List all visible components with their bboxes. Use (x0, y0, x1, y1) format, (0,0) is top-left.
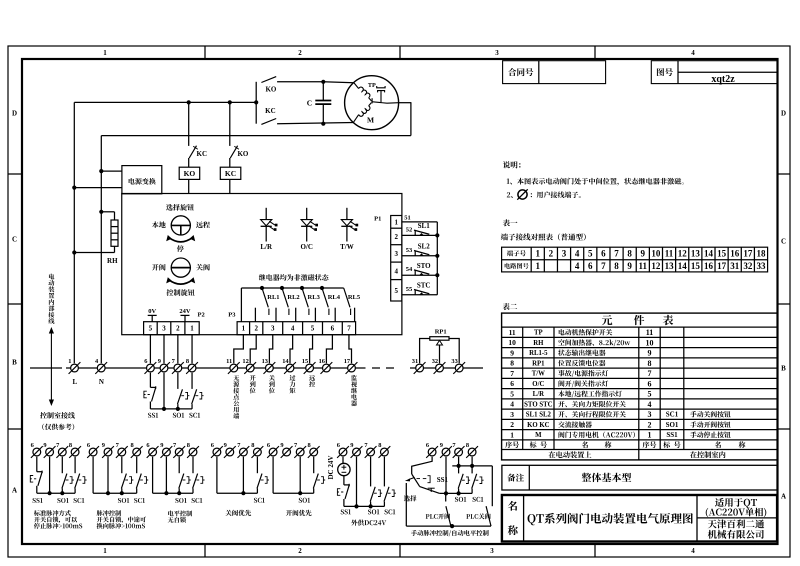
example1 caption (34, 510, 71, 516)
svg-text:RH: RH (533, 340, 544, 347)
boundary arrow (50, 332, 52, 402)
svg-text:1: 1 (536, 261, 541, 271)
svg-text:1: 1 (510, 430, 514, 439)
svg-text:55: 55 (406, 286, 413, 293)
terminal 7 (172, 362, 184, 374)
terminal 32 (434, 362, 446, 374)
svg-text:9: 9 (510, 348, 514, 357)
control knob (open/close) (171, 258, 190, 277)
example2 wire 6 (92, 457, 94, 494)
wire coil branch 2 upper (229, 102, 231, 145)
terminal base line right (410, 367, 483, 369)
svg-text:4: 4 (691, 547, 695, 555)
svg-text:11: 11 (226, 358, 232, 365)
svg-text:11: 11 (665, 248, 674, 258)
example4 wire 6 (216, 457, 218, 494)
svg-text:1: 1 (190, 325, 194, 333)
wire coil KC to box (229, 179, 231, 193)
example5 wire 7 (299, 457, 301, 494)
svg-text:4: 4 (394, 267, 398, 275)
example7 wire 9 (445, 457, 447, 494)
svg-text:13: 13 (665, 261, 675, 271)
svg-text:12: 12 (242, 358, 248, 365)
label 控制旋钮 (167, 289, 195, 296)
svg-text:8: 8 (186, 358, 189, 365)
example6 button SC1 (383, 457, 385, 487)
svg-text:3: 3 (162, 325, 166, 333)
svg-text:9: 9 (440, 442, 443, 449)
wire rail2 to power box (101, 170, 122, 172)
button SC1 (close, NO) (191, 373, 193, 389)
example4 common wire (217, 492, 258, 494)
example3 wire 9 (165, 457, 167, 494)
svg-text:11: 11 (639, 261, 648, 271)
coil KC (contactor coil) (220, 167, 241, 179)
svg-text:7: 7 (614, 248, 619, 258)
svg-text:13: 13 (691, 248, 701, 258)
svg-text:24V: 24V (179, 308, 191, 315)
svg-text:8: 8 (510, 359, 514, 368)
terminal 16 (321, 362, 333, 374)
svg-text:2: 2 (394, 233, 398, 241)
svg-text:8: 8 (466, 442, 469, 449)
node rail1 RH junction (72, 250, 76, 254)
button SS1 (stop, NC) (149, 373, 151, 388)
svg-text:3: 3 (495, 49, 499, 57)
svg-text:3: 3 (648, 410, 652, 419)
terminal 31 (414, 362, 426, 374)
svg-text:10: 10 (646, 338, 654, 347)
example7 right rail (491, 466, 493, 506)
wire buttons common (150, 408, 192, 410)
svg-text:11: 11 (509, 328, 516, 337)
wire KO-KC vertical (255, 82, 257, 124)
svg-text:2: 2 (298, 49, 302, 57)
svg-text:C: C (12, 235, 17, 243)
svg-text:RH: RH (107, 257, 118, 265)
motor M circle (345, 76, 399, 130)
svg-text:2: 2 (176, 325, 180, 333)
svg-text:15: 15 (691, 261, 701, 271)
example7 labels SO1 SC1 (455, 497, 466, 502)
svg-text:17: 17 (743, 248, 753, 258)
example3 caption (168, 511, 192, 517)
label 仅供参考 (42, 424, 74, 430)
wire 51 (402, 221, 437, 223)
wire coil branch 1 upper (188, 102, 190, 145)
example3 wire 6 (152, 457, 154, 494)
wire motor right lead (399, 102, 411, 104)
table1 row header 端子号 (507, 250, 526, 256)
svg-text:O/C: O/C (532, 381, 544, 388)
svg-text:DC 24V: DC 24V (327, 456, 335, 480)
svg-text:12: 12 (678, 248, 688, 258)
svg-text:STO: STO (417, 262, 431, 270)
example5 caption 开阀优先 (286, 510, 312, 516)
contact KO aux (branch 2) (230, 146, 237, 158)
svg-text:8: 8 (69, 442, 72, 449)
svg-text:RL3: RL3 (308, 294, 321, 301)
svg-text:6: 6 (510, 379, 514, 388)
svg-text:4: 4 (575, 261, 580, 271)
node coil branch 1 (187, 100, 191, 104)
svg-text:L/R: L/R (260, 243, 273, 251)
svg-text:5: 5 (394, 287, 398, 295)
example1 terminals 6 9 7 8 (31, 446, 43, 458)
svg-text:3: 3 (271, 325, 275, 333)
example5 button SO1 (313, 457, 315, 474)
LED L/R (local/remote lamp) (265, 208, 267, 220)
svg-text:L/R: L/R (533, 391, 544, 398)
wire terminal 9 down (163, 373, 165, 409)
example5 wire 6 (272, 457, 274, 494)
border zone ticks left (8, 173, 22, 175)
svg-text:4: 4 (510, 400, 514, 409)
svg-text:51: 51 (404, 214, 411, 221)
svg-text:KO: KO (265, 85, 276, 93)
svg-text:2: 2 (549, 248, 554, 258)
company 天津百利二通机械有限公司 (708, 519, 764, 528)
svg-text:2: 2 (648, 420, 652, 429)
wire RH bottom (114, 246, 116, 252)
example7 PLC top rail (452, 465, 492, 467)
svg-text:2: 2 (254, 325, 258, 333)
svg-text:STO STC: STO STC (524, 401, 552, 408)
example6 labels (341, 509, 351, 514)
example5 terminals 6 9 7 8 (267, 446, 279, 458)
svg-text:31: 31 (412, 358, 418, 365)
example7 button SC1 (471, 466, 473, 474)
svg-text:1: 1 (68, 358, 71, 365)
svg-text:3: 3 (510, 410, 514, 419)
svg-text:8: 8 (187, 442, 190, 449)
svg-text:A: A (12, 486, 17, 494)
svg-text:15: 15 (717, 248, 727, 258)
svg-text:16: 16 (730, 248, 740, 258)
label PLC开阀 (426, 513, 450, 519)
example6 wire 9 (356, 457, 358, 507)
svg-text:1: 1 (648, 431, 652, 440)
example7 bottom wire (406, 525, 491, 527)
svg-text:54: 54 (406, 266, 413, 273)
capacitor C (322, 82, 324, 100)
node rail2 to RH (99, 210, 103, 214)
svg-text:7: 7 (601, 261, 606, 271)
example6 caption 外供DC24V (351, 520, 386, 526)
svg-text:10: 10 (508, 338, 516, 347)
example3 labels (175, 498, 186, 503)
example2 wire 9 (107, 457, 109, 494)
label PLC关阀 (466, 513, 490, 519)
example7 terminals 6 9 7 8 (426, 446, 438, 458)
svg-text:KO: KO (237, 150, 248, 158)
svg-text:16: 16 (319, 358, 326, 365)
terminal strip P1 (391, 216, 402, 302)
svg-text:1: 1 (536, 248, 541, 258)
svg-text:9: 9 (102, 442, 105, 449)
contact KC (contactor, motor close) (261, 119, 276, 125)
label 过力矩 (290, 375, 296, 381)
coil KO (contactor coil) (179, 167, 200, 179)
terminal strip P3 (237, 322, 356, 335)
table2 grid 元件表 (502, 313, 778, 460)
svg-text:1: 1 (394, 218, 398, 226)
svg-text:9: 9 (350, 442, 353, 449)
svg-text:1: 1 (103, 49, 107, 57)
note 1 (507, 178, 684, 186)
svg-text:7: 7 (347, 325, 351, 333)
svg-text:4: 4 (575, 248, 580, 258)
svg-text:P2: P2 (197, 311, 204, 318)
svg-text:T/W: T/W (532, 371, 545, 378)
wire limit switch rail (436, 222, 438, 295)
svg-text:5: 5 (648, 390, 652, 399)
table1 row header 电路图号 (505, 263, 529, 269)
svg-text:8: 8 (378, 442, 381, 449)
button SO1 (open, NO) (177, 373, 179, 389)
svg-text:RL1-5: RL1-5 (529, 350, 548, 357)
example4 terminals 6 9 7 8 (211, 446, 223, 458)
applicable type 适用于QT (715, 498, 757, 508)
motor winding common (369, 98, 372, 101)
svg-text:6: 6 (588, 261, 593, 271)
remark box 备注 (502, 465, 777, 490)
limit switch SL1 (402, 234, 437, 236)
example7 button SO1 (458, 466, 460, 474)
svg-text:4: 4 (691, 49, 695, 57)
label 关到位 (269, 375, 275, 381)
terminal 6 (145, 362, 157, 374)
main unit box (122, 194, 402, 335)
example2 button SC1 (136, 457, 138, 474)
svg-text:4: 4 (291, 325, 295, 333)
svg-text:2: 2 (298, 547, 302, 555)
svg-text:KC: KC (225, 169, 236, 178)
terminal 33 (453, 362, 465, 374)
relay contact blades RL1-RL5 (262, 288, 268, 307)
svg-text:13: 13 (262, 358, 268, 365)
svg-text:RL5: RL5 (348, 294, 361, 301)
svg-text:16: 16 (704, 261, 714, 271)
selector knob (local/remote/stop) (171, 216, 190, 235)
example1 button SO1 (61, 457, 63, 474)
knob2 rotation arrow (169, 280, 193, 284)
table2 header 元件表 (602, 315, 613, 325)
border zone ticks right (778, 173, 791, 175)
relay common junctions (260, 286, 264, 290)
label SC1 (189, 413, 200, 418)
example2 button SO1 (121, 457, 123, 474)
drawing-no box 图号 (651, 61, 777, 84)
contact KC aux (branch 1) (189, 146, 196, 158)
node coil branch 2 (228, 100, 232, 104)
svg-text:14: 14 (704, 248, 714, 258)
wire phase top (74, 101, 256, 103)
example7 selector blade (412, 474, 420, 487)
example6 button SS1 (343, 476, 345, 485)
node button common 7 (176, 407, 180, 411)
label DC 24V vertical (327, 456, 335, 480)
svg-text:RP1: RP1 (532, 360, 545, 367)
motor winding lower (354, 115, 359, 122)
label SO1 (173, 413, 184, 418)
svg-text:17: 17 (717, 261, 727, 271)
svg-text:9: 9 (641, 248, 646, 258)
svg-text:8: 8 (307, 442, 310, 449)
svg-text:32: 32 (743, 261, 753, 271)
wires P3 to terminals 11-17 (234, 335, 244, 364)
svg-text:15: 15 (302, 358, 308, 365)
wire rail L (73, 102, 75, 363)
svg-text:C: C (307, 98, 312, 107)
table1 caption 表一 (503, 219, 518, 226)
notes title 说明 (503, 161, 521, 168)
terminal 9 (158, 362, 170, 374)
relay output leads to P3 (254, 308, 256, 322)
svg-text:5: 5 (588, 248, 593, 258)
svg-text:31: 31 (730, 261, 740, 271)
svg-text:9: 9 (158, 358, 161, 365)
svg-text:5: 5 (311, 325, 315, 333)
example5 labels (299, 498, 310, 503)
example6 terminals 6 9 7 8 (337, 446, 349, 458)
wire cap top to motor (323, 82, 354, 83)
wire RH top (101, 211, 114, 213)
svg-text:5: 5 (149, 325, 153, 333)
svg-text:12: 12 (651, 261, 661, 271)
svg-text:18: 18 (756, 248, 766, 258)
svg-text:8: 8 (648, 359, 652, 368)
contact KO (contactor, motor open) (261, 77, 276, 83)
svg-text:RL1: RL1 (267, 294, 279, 301)
svg-text:RL2: RL2 (287, 294, 299, 301)
note 2 text (531, 191, 581, 198)
example7 left rail (405, 483, 407, 526)
example2 caption (97, 510, 121, 516)
motor thermal protector TP symbol (377, 86, 385, 102)
svg-text:SL1 SL2: SL1 SL2 (526, 412, 552, 419)
terminal 1 L (69, 362, 81, 374)
boundary dashes (372, 367, 380, 369)
svg-text:SS1: SS1 (666, 431, 678, 439)
example2 terminals 6 9 7 8 (87, 446, 99, 458)
LED O/C (open/close lamp) (306, 208, 308, 220)
svg-text:2: 2 (510, 420, 514, 429)
svg-text:B: B (12, 358, 17, 366)
remark text 整体基本型 (582, 473, 631, 482)
label 无源接点公用端 (233, 375, 239, 381)
example7 wire from 6 (412, 457, 432, 474)
svg-text:KO: KO (184, 169, 196, 178)
contract-no box 合同号 (503, 61, 606, 84)
wire relay common (241, 287, 343, 289)
LED T/W (trouble lamp) (346, 208, 348, 220)
example4 labels (254, 498, 265, 503)
table2 location row (549, 451, 592, 458)
example4 button SC1 (256, 457, 258, 474)
example7 PLC-close contact (486, 506, 491, 526)
svg-text:10: 10 (651, 248, 661, 258)
example3 button SO1 (178, 457, 180, 474)
terminal 11 (228, 362, 240, 374)
svg-text:TP: TP (368, 82, 376, 89)
svg-text:STC: STC (417, 281, 431, 289)
terminal 15 (304, 362, 316, 374)
svg-text:9: 9 (280, 442, 283, 449)
table1 grid (502, 247, 768, 272)
svg-text:SL2: SL2 (418, 242, 431, 250)
svg-text:3: 3 (562, 248, 567, 258)
example1 labels (33, 498, 43, 503)
label 监视继电器 (351, 375, 357, 381)
label 电动装置内部接线 vertical (49, 274, 54, 280)
svg-text:1: 1 (242, 325, 246, 333)
svg-text:6: 6 (648, 379, 652, 388)
svg-text:KC: KC (197, 150, 208, 158)
terminal base line (66, 367, 366, 369)
wire rail1 to power box (74, 187, 122, 189)
label 控制室接线 (40, 412, 75, 419)
svg-text:8: 8 (130, 442, 133, 449)
example3 terminals 6 9 7 8 (147, 446, 159, 458)
svg-text:6: 6 (331, 325, 335, 333)
svg-text:P1: P1 (374, 216, 381, 223)
label 停 (177, 245, 184, 252)
example6 button SO1 (370, 457, 372, 487)
label 本地 (152, 221, 166, 228)
node rail1 to power box (72, 186, 76, 190)
svg-text:A: A (781, 492, 786, 500)
example1 button SC1 (74, 457, 76, 474)
terminal 12 (244, 362, 256, 374)
terminal 8 (186, 362, 198, 374)
svg-text:33: 33 (451, 358, 457, 365)
svg-text:8: 8 (614, 261, 619, 271)
table2 seq header row (505, 441, 519, 448)
example4 wire 7 (242, 457, 244, 494)
table2 caption 表二 (503, 303, 518, 310)
label 关阀 (196, 264, 210, 271)
svg-text:14: 14 (678, 261, 688, 271)
svg-text:52: 52 (406, 226, 413, 233)
svg-text:KC: KC (265, 107, 276, 115)
example2 common wire (93, 492, 137, 494)
drawing title QT系列阀门电动装置电气原理图 (528, 513, 693, 525)
boundary line left stub (30, 367, 62, 369)
svg-text:1: 1 (103, 547, 107, 555)
wire coil KO to box (188, 179, 190, 193)
node button common 9 (162, 407, 166, 411)
svg-text:0V: 0V (148, 308, 156, 315)
terminal strip P2 (144, 322, 200, 335)
svg-text:KO KC: KO KC (527, 422, 550, 429)
limit switch STC (402, 294, 437, 296)
example7 selector arrow (409, 477, 415, 479)
note 继电器均为非激磁状态 (259, 274, 329, 281)
example1 button SS1 (36, 457, 38, 472)
svg-text:O/C: O/C (300, 243, 312, 251)
example7 PLC-open contact (445, 493, 447, 501)
svg-text:SC1: SC1 (666, 411, 679, 419)
svg-text:53: 53 (406, 247, 413, 254)
label 选择 (404, 495, 417, 501)
svg-text:9: 9 (648, 349, 652, 358)
example7 caption (411, 530, 489, 536)
example6 common wire (344, 505, 385, 507)
label SS1 (148, 413, 158, 418)
example7 selector T symbol (428, 487, 435, 489)
svg-text:C: C (781, 237, 786, 245)
